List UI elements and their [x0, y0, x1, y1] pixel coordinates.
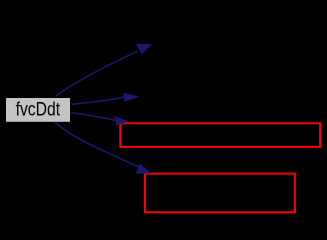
edge to red node 2	[55, 122, 138, 167]
red node 2	[145, 174, 295, 213]
edge to red node 1	[71, 113, 115, 121]
arrowhead middle node	[124, 93, 140, 102]
arrowhead red node 1	[114, 116, 129, 126]
red node 1	[120, 123, 320, 147]
svg-text:fvcDdt: fvcDdt	[16, 99, 61, 120]
edge to middle node	[72, 97, 125, 104]
arrowhead red node 2	[136, 163, 152, 173]
arrowhead top node	[136, 44, 152, 55]
node fvcDdt	[6, 98, 70, 122]
edge to top node	[56, 51, 138, 96]
